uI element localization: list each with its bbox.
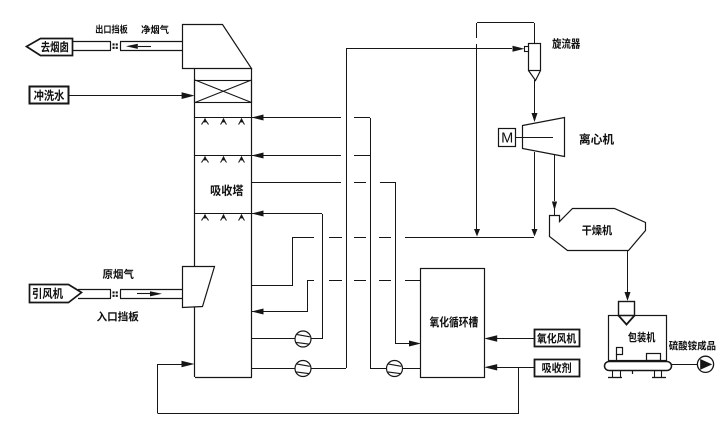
wire cyclone feed (346, 48, 512, 50)
solids arrow (552, 202, 557, 211)
spray feed line 3 arrow (252, 211, 264, 217)
wire bottom header (158, 413, 519, 415)
spray feed line 2 arrow (252, 153, 264, 159)
absorber tower bottom (195, 377, 252, 379)
pump P1 (295, 331, 311, 347)
wire centrate return (534, 152, 536, 230)
label 吸收塔 (211, 184, 243, 196)
wire pump P2 suction (252, 368, 346, 370)
product wheel (697, 356, 713, 372)
spray header level 3 (195, 213, 252, 215)
wire oxidation air line (497, 338, 534, 340)
centrifuge 离心机 bowl (523, 118, 565, 157)
inlet duct upper line (78, 289, 111, 291)
centrifuge motor box M (499, 129, 516, 147)
outlet duct flange caps (110, 42, 112, 50)
wire spray feed 2 (252, 155, 341, 157)
raw gas flow arrow (137, 293, 150, 295)
cyclone overflow arrow (474, 229, 480, 237)
label 包装机 (628, 332, 655, 343)
wire riser x=346.5 (to cyclone) (346, 48, 348, 368)
wire bottom-left L (158, 365, 183, 414)
tower bottom return arrow (182, 361, 195, 368)
label 净烟气 (141, 25, 168, 34)
absorber tower right wall (251, 69, 253, 377)
outlet duct lower line (72, 50, 111, 52)
clean gas flow arrow (126, 44, 138, 49)
flush water box 冲洗水 (30, 87, 69, 104)
cyclone feed arrow (513, 46, 525, 52)
packaging machine body 包装机 (609, 316, 667, 361)
outlet duct upper line (72, 41, 111, 43)
label 原烟气 (103, 269, 134, 279)
flush water arrow (182, 92, 195, 99)
inlet damper (113, 291, 115, 293)
wire cyclone overflow (534, 23, 536, 44)
oxidation fan box 氧化风机 (535, 330, 580, 347)
cyclone underflow arrow (532, 113, 538, 122)
label 硫酸铵成品 (669, 340, 715, 350)
to-stack sign 去烟囱 (27, 39, 73, 56)
outlet damper (113, 43, 115, 45)
label 旋流器 (552, 38, 580, 49)
wire return header y=237.5 (292, 237, 314, 239)
spray header level 2 (195, 155, 252, 157)
conveyor tick (632, 370, 634, 374)
oxidation tank 氧化循环槽 (421, 269, 485, 378)
tank-to-tower arrow (252, 309, 264, 315)
spray header level 1 (195, 117, 252, 119)
wire riser x=370 (370, 118, 372, 368)
packaging feed funnel (619, 302, 635, 316)
dryer outlet arrow (625, 292, 631, 301)
wire solids to dryer (554, 155, 556, 201)
wire tower bleed to tank (y=182.5) (252, 182, 341, 184)
cyclone cone (529, 71, 541, 81)
label 入口挡板 (97, 311, 139, 321)
wire product takeoff (671, 364, 697, 366)
conveyor bar (605, 362, 672, 371)
oxidation air arrow (484, 335, 497, 341)
label 出口挡板 (96, 25, 128, 34)
inlet duct lower line (78, 298, 111, 300)
pump P3 (387, 361, 403, 377)
wire pump P3 line (370, 368, 421, 370)
wire spray feed 3 (252, 213, 322, 215)
centrate arrow (532, 229, 538, 237)
flush water line (68, 95, 182, 97)
absorber tower hood (183, 25, 252, 69)
centrifuge shaft (515, 137, 553, 139)
wire riser x=395.5 (395, 182, 397, 344)
wire tank feed y=280 (308, 280, 314, 282)
label 氧化循环槽 (430, 316, 478, 328)
conveyor feet (608, 377, 622, 379)
wire absorbent line (497, 367, 534, 369)
bag small flag (617, 348, 623, 355)
wire riser x=322 (322, 214, 324, 339)
wire pump P1 suction (252, 338, 322, 340)
wire bottom riser to absorbent line (518, 367, 520, 414)
wire cyclone underflow (534, 80, 536, 113)
spray feed line 1 arrow (252, 115, 264, 121)
cyclone inlet stub (525, 47, 529, 52)
inlet duct flange caps (110, 290, 112, 298)
centrifuge shaft inner (523, 137, 553, 139)
absorbent arrow (484, 364, 497, 370)
ID fan sign 引风机 (30, 285, 82, 303)
tank inlet arrow (bleed) (396, 343, 410, 345)
mist eliminator X-pad (195, 81, 252, 103)
absorbent box 吸收剂 (535, 360, 580, 377)
dryer 干燥机 body (550, 209, 646, 251)
wire return drop to tower (292, 238, 294, 286)
conveyor legs (612, 370, 614, 378)
pump P2 (295, 361, 311, 377)
label 离心机 (580, 133, 614, 145)
wire spray feed 1 (252, 117, 341, 119)
label 干燥机 (582, 225, 612, 236)
cyclone 旋流器 body (529, 44, 541, 71)
raw gas inlet nozzle (183, 267, 215, 308)
bag wide (647, 354, 661, 361)
wire dryer outlet (627, 250, 629, 294)
wire riser x=307.5 (307, 280, 309, 312)
absorber tower left wall (194, 69, 196, 377)
